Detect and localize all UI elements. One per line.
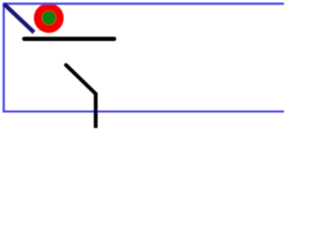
switch SW1 [66, 65, 96, 128]
diagonal wire W1 [4, 4, 34, 32]
switch SW1 cap [64, 63, 68, 67]
wire W2 [24, 37, 114, 41]
blue boundary wire [4, 4, 284, 112]
indicator lamp DS1 inner [42, 11, 56, 25]
indicator lamp DS1 outer [34, 3, 64, 33]
